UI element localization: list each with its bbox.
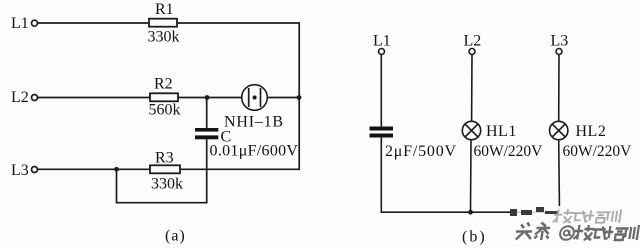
lamp HL1: [462, 121, 480, 139]
svg-text:R1: R1: [155, 1, 174, 18]
wire HL1 down to bottom bus: [470, 140, 473, 213]
node L3: [11, 162, 38, 179]
svg-text:R2: R2: [154, 76, 173, 93]
neon lamp U1 NHI-1B: [242, 85, 268, 111]
wire capacitor down to bottom loop: [206, 139, 208, 203]
watermark dark text tou tiao: [515, 223, 551, 241]
watermark at sign: [559, 226, 575, 240]
node L1 (left circuit): [11, 15, 38, 32]
svg-text:R3: R3: [155, 150, 174, 167]
wire L2 down to lamp HL1: [471, 55, 473, 122]
lamp HL2: [550, 121, 568, 139]
svg-text:2μF/500V: 2μF/500V: [385, 143, 457, 160]
node L1 (right circuit): [373, 33, 391, 55]
svg-text:L1: L1: [373, 33, 391, 50]
wire right rail vertical: [298, 22, 300, 170]
svg-text:560k: 560k: [149, 102, 181, 119]
capacitor 2uF plates: [370, 127, 394, 138]
svg-text:NHI–1B: NHI–1B: [224, 114, 284, 131]
svg-text:L1: L1: [11, 15, 29, 32]
wire junction down to capacitor C: [206, 98, 208, 129]
watermark light text ji cheng pei xun: [553, 209, 622, 222]
wire L3 to R3: [38, 168, 150, 170]
svg-text:(b): (b): [462, 229, 487, 246]
resistor R1: [149, 19, 177, 27]
svg-text:60W/220V: 60W/220V: [474, 143, 544, 160]
wire R1 to right rail: [177, 22, 300, 24]
svg-text:HL1: HL1: [486, 123, 517, 140]
resistor R3: [150, 165, 180, 173]
watermark white glow patch: [546, 206, 640, 230]
svg-text:L3: L3: [551, 33, 569, 50]
wire lamp to right rail: [267, 97, 300, 99]
svg-text:L2: L2: [11, 89, 29, 106]
svg-text:330k: 330k: [148, 29, 180, 46]
wire R3 to right rail: [180, 168, 300, 170]
junction node on L3 wire: [114, 167, 119, 172]
junction node right rail at lamp row: [297, 95, 302, 100]
watermark dark text ji cheng pei xun: [573, 225, 639, 240]
svg-text:HL2: HL2: [576, 123, 607, 140]
junction node bottom bus: [468, 210, 473, 215]
wire bypass loop left vertical: [116, 169, 118, 203]
svg-text:330k: 330k: [151, 176, 183, 193]
watermark smudge marks: [510, 207, 559, 216]
svg-text:L3: L3: [11, 162, 29, 179]
wire capacitor down to bottom bus: [380, 138, 382, 213]
wire L2 to R2: [38, 97, 150, 99]
wire bypass loop bottom: [116, 202, 208, 204]
svg-text:0.01μF/600V: 0.01μF/600V: [210, 143, 299, 160]
wire L1 down to capacitor: [380, 55, 382, 128]
resistor R2: [150, 93, 178, 101]
wire R2 to lamp: [178, 97, 242, 99]
svg-text:60W/220V: 60W/220V: [563, 143, 633, 160]
wire HL2 down to bottom bus: [558, 140, 561, 213]
wire bottom bus: [381, 211, 561, 213]
junction node under R2 wire: [205, 95, 210, 100]
wire L1 to R1: [38, 22, 149, 24]
svg-text:(a): (a): [165, 228, 186, 245]
capacitor C plates: [195, 128, 218, 139]
node L2 (right circuit): [464, 33, 482, 55]
wire L3 down to lamp HL2: [558, 55, 560, 122]
node L3 (right circuit): [551, 33, 569, 55]
svg-text:L2: L2: [464, 33, 482, 50]
node L2: [11, 89, 38, 106]
